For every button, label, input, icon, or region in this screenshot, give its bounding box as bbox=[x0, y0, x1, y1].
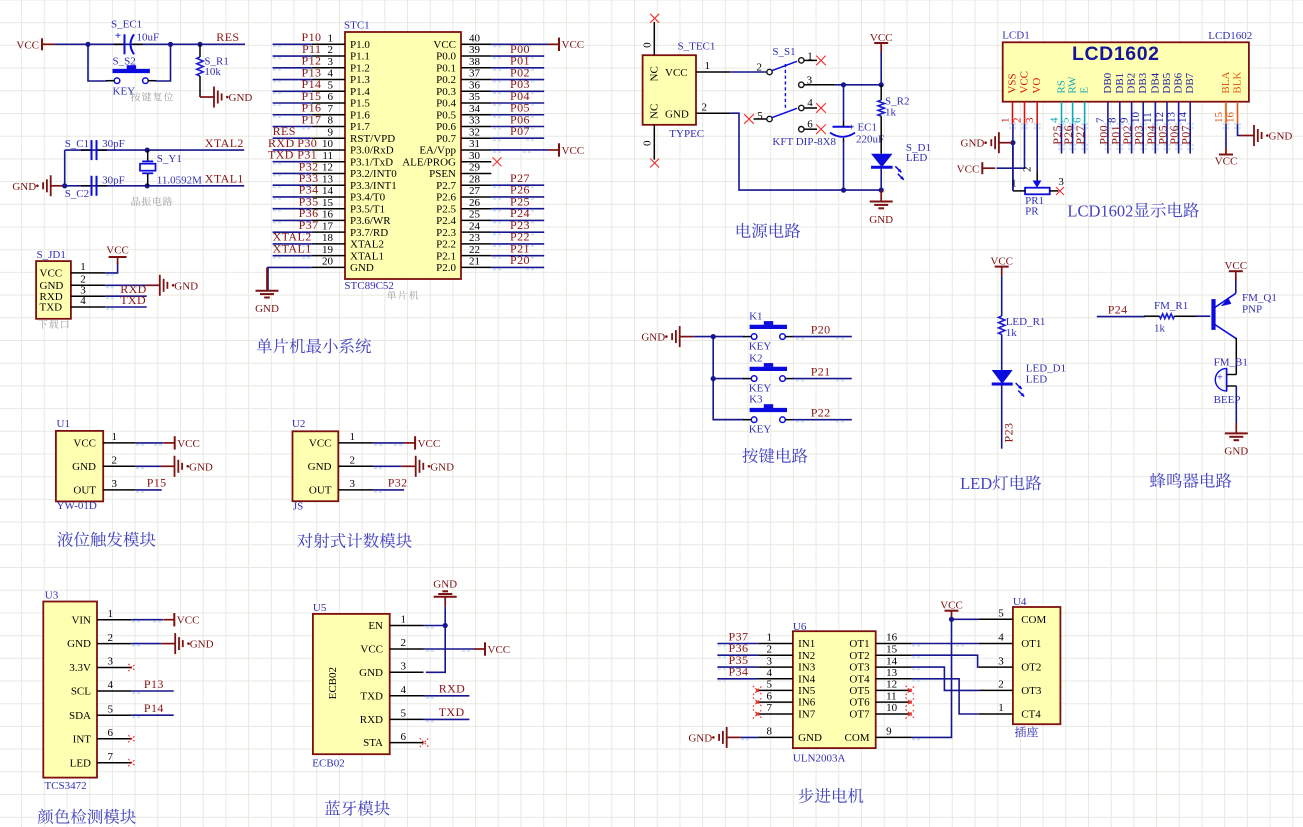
svg-text:IN3: IN3 bbox=[798, 662, 816, 674]
svg-text:4: 4 bbox=[108, 679, 114, 691]
net label P23 bbox=[1002, 423, 1016, 443]
caption 单片机 bbox=[387, 291, 419, 300]
wire U6 GND bbox=[741, 737, 759, 740]
svg-text:12: 12 bbox=[886, 679, 897, 691]
caption 液位触发模块 bbox=[57, 532, 155, 547]
pin 12 U6.OT5 bbox=[849, 679, 911, 697]
svg-text:IN2: IN2 bbox=[798, 650, 815, 662]
pin 17 STC1.P3.7/RD bbox=[312, 220, 388, 238]
wire pin 11 left bbox=[273, 162, 312, 165]
pin 4 U4.OT1 bbox=[979, 632, 1041, 650]
pin 23 STC1.P2.2 bbox=[436, 232, 491, 250]
pin 27 STC1.P2.6 bbox=[436, 185, 491, 203]
wire GND down to EN bbox=[444, 607, 446, 626]
net label RES (MCU) bbox=[273, 124, 296, 138]
wire U1 pin2 to GND bbox=[136, 466, 161, 469]
pin 13 STC1.P3.3/INT1 bbox=[312, 173, 397, 191]
wire P24 bbox=[1097, 316, 1145, 318]
svg-text:P0.0: P0.0 bbox=[436, 51, 456, 63]
net label P17 bbox=[302, 112, 322, 126]
net label P20 bbox=[510, 253, 530, 267]
svg-text:ECB02: ECB02 bbox=[327, 667, 339, 699]
svg-text:NC: NC bbox=[649, 104, 661, 119]
pin 3 U5.GND bbox=[359, 661, 423, 679]
wire U2 pin3 P32 bbox=[373, 490, 404, 493]
pin 1 S_TEC1.VCC bbox=[665, 60, 730, 79]
svg-text:OT7: OT7 bbox=[849, 709, 870, 721]
svg-text:35: 35 bbox=[469, 91, 481, 103]
wire U3 pin1 bbox=[131, 620, 163, 623]
svg-text:RXD: RXD bbox=[439, 682, 466, 696]
svg-text:34: 34 bbox=[469, 103, 481, 115]
svg-text:18: 18 bbox=[322, 232, 334, 244]
net label P25 bbox=[510, 194, 530, 208]
pin 3 U1.OUT bbox=[73, 478, 135, 496]
net label P31 bbox=[297, 148, 317, 162]
svg-text:10: 10 bbox=[1130, 112, 1142, 124]
label K1 bbox=[749, 311, 762, 323]
wire U3 pin 4 bbox=[131, 691, 173, 694]
svg-text:8: 8 bbox=[328, 115, 334, 127]
svg-text:1: 1 bbox=[1011, 178, 1017, 190]
svg-text:5: 5 bbox=[401, 708, 407, 720]
svg-text:OT4: OT4 bbox=[849, 673, 870, 685]
pin 6 LCD1.E bbox=[1071, 87, 1090, 130]
net label P01 bbox=[510, 54, 530, 68]
svg-text:3: 3 bbox=[112, 478, 118, 490]
svg-text:NC: NC bbox=[649, 66, 661, 81]
power VCC (reset net) bbox=[16, 38, 55, 51]
label S_S2 bbox=[113, 56, 136, 68]
wire pot pin1 up bbox=[1012, 143, 1014, 191]
wire LED to P23 bbox=[1001, 385, 1003, 449]
switch S_S1 pole 5-4 bbox=[757, 108, 797, 122]
net label P05 bbox=[510, 101, 530, 115]
wire pin1 to VCC bbox=[105, 263, 117, 276]
wire GND pin20 bbox=[268, 267, 312, 290]
pin 35 STC1.P0.4 bbox=[436, 91, 491, 109]
svg-text:11: 11 bbox=[322, 150, 333, 162]
svg-text:P1.5: P1.5 bbox=[350, 98, 370, 110]
wire VCC down bbox=[880, 55, 882, 85]
svg-text:P0.6: P0.6 bbox=[436, 121, 456, 133]
svg-text:DB3: DB3 bbox=[1137, 72, 1149, 93]
pin 31 STC1.EA/Vpp bbox=[419, 138, 491, 156]
transistor FM_Q1 bbox=[1214, 293, 1236, 338]
node junction (crystal bottom) bbox=[145, 183, 150, 188]
svg-text:GND: GND bbox=[641, 332, 665, 344]
label LCD1 bbox=[1002, 29, 1029, 41]
svg-text:PNP: PNP bbox=[1242, 303, 1262, 315]
label + EC1 bbox=[849, 122, 878, 134]
net label IN1 (U6) bbox=[729, 629, 749, 643]
pin 14 STC1.P3.4/T0 bbox=[312, 185, 386, 203]
svg-text:TXD: TXD bbox=[439, 705, 465, 719]
pin 3 U4.OT2 bbox=[979, 655, 1041, 673]
svg-text:IN1: IN1 bbox=[798, 638, 815, 650]
wire pin3 to VCC rail bbox=[835, 84, 881, 86]
svg-text:4: 4 bbox=[328, 68, 334, 80]
svg-text:P3.3/INT1: P3.3/INT1 bbox=[350, 180, 397, 192]
svg-text:S_JD1: S_JD1 bbox=[37, 249, 66, 261]
svg-text:13: 13 bbox=[886, 667, 898, 679]
wire pin 10 left bbox=[273, 150, 312, 153]
pin 14 U6.OT3 bbox=[849, 655, 911, 673]
svg-text:26: 26 bbox=[469, 197, 481, 209]
svg-text:2: 2 bbox=[767, 643, 773, 655]
wire COM to U4 pin5 bbox=[912, 619, 979, 740]
svg-text:P3.2/INT0: P3.2/INT0 bbox=[350, 168, 397, 180]
buzzer FM_B1 bbox=[1215, 368, 1236, 391]
svg-text:P32: P32 bbox=[388, 476, 408, 490]
net label P33 bbox=[299, 171, 319, 185]
pin 4 LCD1.RS bbox=[1048, 80, 1067, 129]
svg-text:0: 0 bbox=[642, 42, 654, 48]
label U3 bbox=[45, 590, 59, 602]
svg-text:S_TEC1: S_TEC1 bbox=[678, 40, 716, 52]
pin 12 LCD1.DB5 bbox=[1154, 72, 1173, 129]
power VCC (pin 31) bbox=[548, 143, 584, 157]
svg-text:2: 2 bbox=[328, 44, 334, 56]
svg-text:GND: GND bbox=[174, 280, 198, 292]
pin 2 LCD1.VCC bbox=[1011, 71, 1030, 129]
svg-text:30: 30 bbox=[469, 150, 481, 162]
net label P22 bbox=[510, 230, 530, 244]
resistor S_R1 bbox=[197, 44, 203, 97]
wire XTAL1 bbox=[65, 185, 245, 187]
wire pin 39 right bbox=[491, 56, 544, 59]
wire XTAL2 bbox=[65, 149, 245, 151]
svg-text:P13: P13 bbox=[144, 677, 164, 691]
wire VCC left bbox=[997, 124, 1025, 168]
svg-text:GND: GND bbox=[1269, 131, 1293, 143]
svg-text:OT3: OT3 bbox=[1021, 685, 1042, 697]
label KEY (K2) bbox=[749, 382, 772, 394]
svg-text:DB0: DB0 bbox=[1102, 72, 1114, 93]
label ULN2003A bbox=[793, 753, 846, 765]
svg-text:ALE/PROG: ALE/PROG bbox=[402, 156, 456, 168]
svg-text:3: 3 bbox=[1058, 176, 1064, 188]
svg-text:4: 4 bbox=[767, 667, 773, 679]
svg-text:FM_B1: FM_B1 bbox=[1214, 356, 1248, 368]
no-connect U3 pin 3 bbox=[128, 664, 135, 671]
svg-text:TCS3472: TCS3472 bbox=[45, 780, 87, 792]
svg-text:P0.1: P0.1 bbox=[436, 62, 456, 74]
net label P27 bbox=[510, 171, 530, 185]
node junction A (cap left) bbox=[85, 42, 90, 47]
ground GND (power) bbox=[869, 190, 893, 226]
node junction rail top bbox=[879, 82, 884, 87]
pin 1 LCD1.VSS bbox=[999, 73, 1018, 129]
svg-text:GND: GND bbox=[430, 461, 454, 473]
svg-text:24: 24 bbox=[469, 220, 481, 232]
ic U4 body bbox=[1013, 607, 1061, 724]
label TCS3472 bbox=[45, 780, 87, 792]
svg-text:2: 2 bbox=[108, 632, 114, 644]
label PR1 bbox=[1025, 195, 1044, 207]
svg-text:U5: U5 bbox=[313, 602, 327, 614]
label 10uF bbox=[137, 31, 160, 43]
svg-text:11: 11 bbox=[1142, 112, 1154, 123]
svg-text:DB4: DB4 bbox=[1149, 72, 1161, 93]
label 1k (FM_R1) bbox=[1154, 322, 1166, 334]
svg-text:P3.7/RD: P3.7/RD bbox=[350, 227, 388, 239]
svg-text:4: 4 bbox=[807, 97, 813, 109]
net label RXD (S_JD1) bbox=[120, 282, 147, 296]
svg-text:OUT: OUT bbox=[309, 485, 332, 497]
resistor FM_R1 bbox=[1144, 314, 1196, 319]
net label XTAL2 bbox=[205, 136, 244, 150]
wire pin 2 left bbox=[273, 56, 312, 59]
diode LED_D1 bbox=[992, 370, 1024, 397]
svg-text:3: 3 bbox=[350, 478, 356, 490]
switch S_S1 pin 6 bbox=[799, 119, 826, 134]
svg-text:16: 16 bbox=[322, 209, 334, 221]
svg-text:4: 4 bbox=[401, 684, 407, 696]
svg-text:EN: EN bbox=[368, 620, 383, 632]
label LED_D1 bbox=[1026, 363, 1066, 375]
svg-text:38: 38 bbox=[469, 56, 481, 68]
label 1k (LED_R1) bbox=[1006, 327, 1018, 339]
svg-text:P1.3: P1.3 bbox=[350, 74, 370, 86]
svg-text:GND: GND bbox=[255, 303, 279, 315]
svg-text:P07: P07 bbox=[1179, 125, 1193, 145]
power VCC (stepper) bbox=[940, 600, 963, 620]
svg-text:S_S1: S_S1 bbox=[772, 46, 795, 58]
pin 5 U5.RXD bbox=[360, 708, 424, 726]
svg-text:11: 11 bbox=[886, 690, 897, 702]
power VCC (LED) bbox=[990, 255, 1013, 276]
pin 1 S_JD1.VCC bbox=[40, 261, 106, 279]
svg-text:P1.6: P1.6 bbox=[350, 109, 370, 121]
svg-text:E: E bbox=[1079, 87, 1091, 94]
ground GND (crystal) bbox=[12, 175, 64, 196]
power VCC (rail) bbox=[870, 32, 893, 56]
pin 15 STC1.P3.5/T1 bbox=[312, 197, 385, 215]
label ECB02 (inside) bbox=[327, 667, 339, 699]
svg-text:5: 5 bbox=[108, 703, 114, 715]
net label P26 (LCD) bbox=[1061, 125, 1075, 145]
svg-text:OT5: OT5 bbox=[849, 685, 870, 697]
pin 2 U6.IN2 bbox=[758, 643, 815, 661]
power VCC (U2) bbox=[404, 436, 440, 450]
node junction EN bbox=[443, 623, 448, 628]
pin 8 LCD1.DB1 bbox=[1107, 73, 1126, 129]
switch K3 bbox=[743, 404, 793, 422]
svg-text:P2.1: P2.1 bbox=[436, 250, 456, 262]
svg-text:K2: K2 bbox=[749, 353, 762, 365]
svg-text:1: 1 bbox=[80, 261, 86, 273]
label 11.0592M bbox=[157, 174, 202, 186]
label FM_B1 bbox=[1214, 356, 1248, 368]
wire right branch down to key bbox=[156, 44, 171, 81]
wire P06 bbox=[1175, 124, 1182, 154]
capacitor S_EC1 bbox=[114, 30, 143, 55]
wire left branch down to key bbox=[88, 44, 107, 81]
net label XTAL1 (MCU) bbox=[273, 241, 312, 255]
svg-text:4: 4 bbox=[80, 295, 86, 307]
svg-text:21: 21 bbox=[469, 256, 480, 268]
switch S_S1 pin 5 x bbox=[744, 114, 766, 124]
pin 5 U6.IN5 bbox=[758, 679, 816, 697]
label S_D1 bbox=[906, 142, 931, 154]
svg-text:3: 3 bbox=[328, 56, 334, 68]
svg-text:37: 37 bbox=[469, 68, 481, 80]
svg-text:1: 1 bbox=[705, 60, 711, 72]
svg-text:P3.0/RxD: P3.0/RxD bbox=[350, 145, 394, 157]
svg-text:P0.5: P0.5 bbox=[436, 109, 456, 121]
wire pin 3 left bbox=[273, 68, 312, 71]
pot PR1 body bbox=[1025, 181, 1050, 195]
switch S_S1 pole 2-1 bbox=[757, 61, 798, 74]
svg-text:GND: GND bbox=[688, 732, 712, 744]
ic U6 body bbox=[793, 631, 876, 748]
wire pin 8 left bbox=[273, 126, 312, 129]
svg-text:3.3V: 3.3V bbox=[69, 662, 91, 674]
svg-text:COM: COM bbox=[1021, 614, 1046, 626]
net label P07 (LCD) bbox=[1179, 125, 1193, 145]
net label P11 bbox=[302, 42, 321, 56]
net label P06 bbox=[510, 112, 530, 126]
pin 7 STC1.P1.6 bbox=[312, 103, 371, 121]
wire LED to rail bbox=[880, 168, 882, 191]
svg-text:STC1: STC1 bbox=[344, 19, 370, 31]
svg-text:DB1: DB1 bbox=[1114, 73, 1126, 94]
wire U3 pin 5 bbox=[131, 715, 173, 718]
wire P27 bbox=[1081, 124, 1088, 154]
label JS bbox=[293, 500, 303, 512]
pin 24 STC1.P2.3 bbox=[436, 220, 491, 238]
net label P21 (keys) bbox=[811, 364, 831, 378]
wire pin 6 left bbox=[273, 103, 312, 106]
wire K1 right bbox=[792, 337, 852, 340]
ic U5 body bbox=[313, 614, 390, 754]
svg-text:VCC: VCC bbox=[1019, 71, 1031, 94]
power VCC (U3) bbox=[163, 613, 199, 627]
svg-text:GND: GND bbox=[189, 461, 213, 473]
svg-text:IN7: IN7 bbox=[798, 709, 816, 721]
svg-text:LED: LED bbox=[960, 474, 992, 493]
svg-text:7: 7 bbox=[328, 103, 334, 115]
svg-text:+ EC1: + EC1 bbox=[849, 122, 878, 134]
pin 9 STC1.RST/VPD bbox=[312, 126, 395, 144]
pin 2 S_JD1.GND bbox=[40, 274, 106, 292]
svg-text:6: 6 bbox=[108, 727, 114, 739]
label S_C1 bbox=[65, 138, 89, 150]
svg-text:30pF: 30pF bbox=[102, 174, 125, 186]
svg-text:VCC: VCC bbox=[40, 268, 63, 280]
switch K1 bbox=[743, 321, 793, 339]
no-connect top bbox=[650, 14, 659, 23]
svg-text:LED: LED bbox=[1026, 373, 1047, 385]
svg-text:SDA: SDA bbox=[69, 710, 91, 722]
switch S_S1 pin 3 bbox=[799, 74, 835, 87]
svg-text:2: 2 bbox=[1022, 167, 1034, 173]
svg-text:P1.1: P1.1 bbox=[350, 51, 370, 63]
svg-text:COM: COM bbox=[845, 732, 870, 744]
pin 38 STC1.P0.1 bbox=[436, 56, 491, 74]
net label RXD (U5) bbox=[439, 682, 466, 696]
wire pin 38 right bbox=[491, 68, 544, 71]
pin 10 STC1.P3.0/RxD bbox=[312, 138, 394, 156]
caption 电源电路 bbox=[737, 223, 800, 238]
wire U2 pin1 to VCC bbox=[373, 443, 404, 446]
label STC89C52 bbox=[344, 280, 394, 292]
power VCC (U5) bbox=[474, 642, 510, 656]
svg-text:23: 23 bbox=[469, 232, 481, 244]
svg-text:VSS: VSS bbox=[1007, 73, 1019, 93]
svg-text:P3.5/T1: P3.5/T1 bbox=[350, 203, 385, 215]
wire OT1 to U4 pin4 bbox=[912, 644, 979, 647]
pin 4 STC1.P1.3 bbox=[312, 68, 371, 86]
pin 20 STC1.GND bbox=[312, 256, 374, 274]
pin 1 U2.VCC bbox=[309, 431, 373, 449]
svg-text:5: 5 bbox=[757, 110, 763, 122]
label YW-01D bbox=[57, 500, 97, 512]
svg-text:P2.7: P2.7 bbox=[436, 180, 456, 192]
svg-text:OT2: OT2 bbox=[849, 650, 869, 662]
label S_C2 bbox=[65, 188, 89, 200]
svg-text:7: 7 bbox=[108, 751, 114, 763]
wire pin 36 right bbox=[491, 91, 544, 94]
svg-text:11.0592M: 11.0592M bbox=[157, 174, 202, 186]
ground GND (U2) bbox=[402, 456, 454, 477]
svg-text:1: 1 bbox=[108, 608, 114, 620]
label FM_Q1 bbox=[1242, 292, 1277, 304]
wire emitter to VCC bbox=[1235, 279, 1237, 293]
ground GND (U6) bbox=[688, 727, 740, 748]
svg-text:P21: P21 bbox=[811, 364, 831, 378]
svg-text:P2.6: P2.6 bbox=[436, 192, 456, 204]
label S_R1 bbox=[204, 56, 228, 68]
ground GND (S_R1) bbox=[200, 87, 252, 108]
no-connect U6 pin 10 bbox=[906, 709, 915, 718]
wire EC1 top lead bbox=[843, 85, 845, 122]
svg-text:7: 7 bbox=[1095, 117, 1107, 123]
connector S_JD1 bbox=[36, 261, 71, 319]
wire VCC to switch bbox=[730, 71, 766, 73]
svg-text:LCD1602: LCD1602 bbox=[1072, 43, 1160, 65]
pin 1 STC1.P1.0 bbox=[312, 33, 371, 51]
power VCC (buzzer) bbox=[1224, 260, 1247, 280]
svg-text:U4: U4 bbox=[1013, 596, 1027, 608]
svg-text:1k: 1k bbox=[885, 107, 897, 119]
svg-text:INT: INT bbox=[73, 733, 92, 745]
label TYPEC bbox=[669, 128, 704, 140]
wire U1 pin1 to VCC bbox=[136, 443, 164, 446]
svg-text:VCC: VCC bbox=[106, 245, 129, 257]
svg-text:DB5: DB5 bbox=[1161, 72, 1173, 93]
pin 16 LCD1.BLK bbox=[1224, 72, 1243, 130]
svg-text:3: 3 bbox=[108, 656, 114, 668]
svg-text:0: 0 bbox=[642, 140, 654, 146]
net label P04 (LCD) bbox=[1144, 125, 1158, 145]
svg-text:+: + bbox=[1217, 373, 1223, 384]
svg-text:+: + bbox=[115, 30, 121, 42]
svg-text:1: 1 bbox=[998, 702, 1004, 714]
node junction (crystal top) bbox=[145, 148, 150, 153]
svg-text:VIN: VIN bbox=[71, 614, 91, 626]
wire K2 left bbox=[713, 378, 744, 380]
svg-text:S_EC1: S_EC1 bbox=[111, 18, 142, 30]
pin 12 STC1.P3.2/INT0 bbox=[312, 162, 397, 180]
pin 6 U3.INT bbox=[73, 727, 132, 745]
svg-text:VCC: VCC bbox=[488, 644, 511, 656]
svg-text:5: 5 bbox=[328, 79, 334, 91]
net label P05 (LCD) bbox=[1156, 125, 1170, 145]
svg-text:KFT DIP-8X8: KFT DIP-8X8 bbox=[772, 136, 836, 148]
pin 3 STC1.P1.2 bbox=[312, 56, 370, 74]
